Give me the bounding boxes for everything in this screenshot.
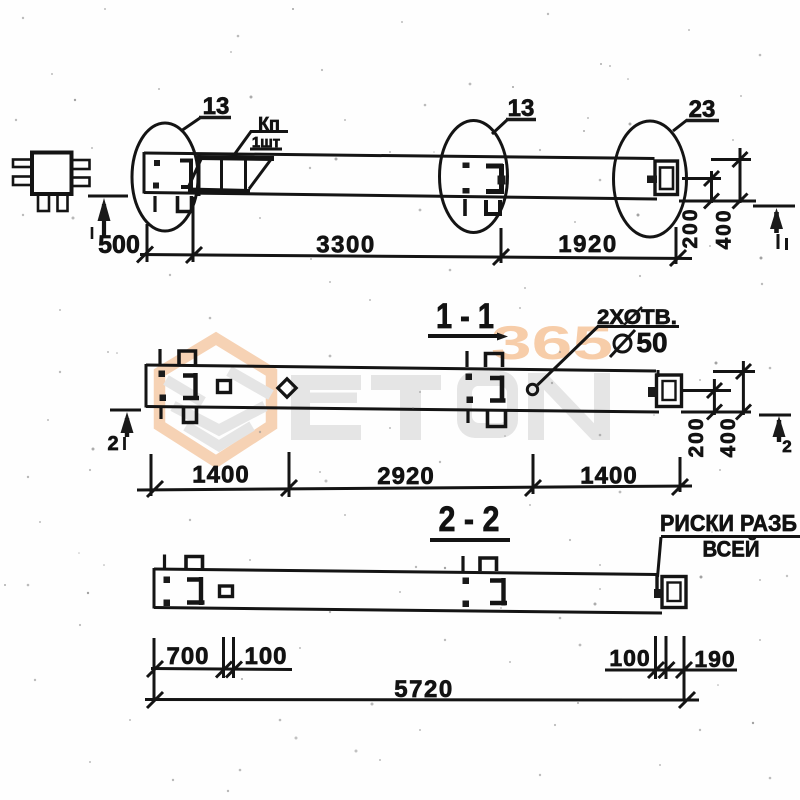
- 1-1 left top stub line: [158, 349, 161, 365]
- section 1-1 beam bottom edge: [146, 407, 659, 413]
- svg-text:500: 500: [98, 231, 140, 259]
- top view dim line 400: [739, 148, 742, 203]
- column cross-section top-left: square: [32, 153, 72, 195]
- 2-2 extension x223.5: [222, 637, 225, 678]
- 1-1 dim line 400: [742, 361, 745, 415]
- 1-1 hole circle: [527, 384, 537, 394]
- 1-1 left bottom stub U: [184, 408, 197, 423]
- riski label leader: [658, 537, 662, 577]
- 2-2 beam top edge: [154, 569, 657, 575]
- riski label underline: [661, 535, 800, 538]
- svg-text:100: 100: [609, 645, 650, 671]
- top view left end: bottom stub line: [153, 196, 156, 212]
- svg-text:1шт: 1шт: [252, 134, 280, 151]
- 1-1 extension x533: [532, 454, 535, 494]
- extension line at x501: [500, 228, 503, 263]
- watermark slab chevron low: [186, 426, 252, 446]
- svg-text:1400: 1400: [192, 462, 249, 489]
- 2-2 left dimension line 700/100: [151, 669, 292, 670]
- 1-1 section cut mark 2 right: stem + arrowhead: [777, 420, 781, 442]
- watermark logo hexagon: [160, 339, 272, 462]
- top view hatch console: vertical 1: [220, 157, 223, 189]
- balloon 13 middle: [440, 121, 508, 233]
- top view hatch console: vertical 2: [244, 157, 247, 189]
- svg-text:РИСКИ РАЗБ: РИСКИ РАЗБ: [660, 510, 797, 536]
- watermark slab chevron mid: [173, 406, 265, 430]
- balloon 13 left leader: [181, 118, 200, 131]
- section cut mark 1 left: bar: [88, 195, 128, 198]
- watermark slab edge NW upper: [166, 380, 203, 402]
- watermark letter T: [371, 375, 441, 440]
- 2-2 right dimension line 100/190: [605, 669, 737, 672]
- 2-2 overall dimension line 5720: [145, 698, 699, 702]
- 1-1 section cut mark 2 right: bar: [759, 414, 791, 417]
- svg-text:5720: 5720: [394, 676, 453, 703]
- 1-1 diamond hole: [278, 379, 296, 397]
- svg-text:3300: 3300: [316, 232, 375, 259]
- 2-2 left dim ticks: [147, 661, 163, 677]
- section 1-1 beam left edge: [145, 364, 148, 408]
- top view right end console outer: [655, 161, 678, 195]
- 2-2 middle top stub line: [461, 556, 464, 571]
- 2-2 beam right step edge: [655, 574, 658, 598]
- 1-1 dim ticks: [147, 481, 163, 497]
- top view: beam left edge: [143, 152, 146, 194]
- 2-2 right console inner: [668, 583, 681, 602]
- top view middle: bottom stub U: [486, 200, 500, 214]
- extension line at x676: [675, 227, 678, 264]
- section cut mark 1 right: stem + arrowhead: [774, 212, 779, 233]
- 1-1 middle top stub U: [486, 354, 503, 368]
- svg-text:ВСЕЙ: ВСЕЙ: [703, 537, 760, 562]
- svg-text:1 - 1: 1 - 1: [436, 297, 494, 336]
- 1-1 right console inner: [663, 381, 676, 400]
- svg-text:2 - 2: 2 - 2: [439, 500, 500, 539]
- section cut mark 1 right: ticks: [777, 234, 780, 249]
- balloon 13 left: [132, 123, 198, 231]
- section 1-1 beam top edge: [146, 365, 656, 371]
- top view right dims: extension at console mid level: [682, 177, 721, 180]
- top view left end: bottom stub U: [178, 196, 192, 212]
- watermark letter E: [291, 375, 361, 440]
- 2-2 left anchor bracket: [187, 577, 205, 605]
- 2-2 middle anchor bracket: [490, 578, 507, 606]
- top view: beam top edge: [144, 153, 655, 159]
- balloon 23 right: [614, 121, 687, 237]
- 1-1 section cut mark 2 left: bar: [110, 409, 141, 412]
- 1-1 left rebar dots: [159, 371, 166, 378]
- section 2-2 title underline: [430, 538, 510, 542]
- top view hatch console: left vertical: [198, 154, 201, 196]
- 2-2 middle top stub U: [480, 558, 497, 571]
- 1-1 middle top stub line: [465, 351, 468, 367]
- svg-text:200: 200: [685, 416, 708, 457]
- 1-1 left small plate: [218, 381, 231, 393]
- svg-text:2ХОТВ.: 2ХОТВ.: [597, 306, 677, 329]
- svg-text:400: 400: [717, 416, 740, 457]
- balloon 13 middle leader: [492, 120, 507, 134]
- 2-2 left small plate: [220, 586, 233, 597]
- 1-1 right dims: mid extension: [682, 389, 731, 392]
- 5720 ticks: [147, 692, 163, 708]
- 2-2 right dim ticks: [648, 662, 664, 678]
- svg-text:2: 2: [782, 437, 791, 456]
- 1-1 hole label underline: [597, 325, 679, 328]
- top view middle: bottom stub line: [463, 199, 467, 216]
- 2-2 left top stub U: [186, 557, 203, 570]
- 1-1 extension x151: [150, 454, 153, 496]
- top view middle: rebar dots: [463, 163, 470, 169]
- watermark slab edge NE upper: [229, 371, 271, 395]
- top view right dims: extension at beam top level: [711, 158, 751, 161]
- top view dim line 200: [710, 171, 713, 203]
- dim ticks top view: [137, 247, 153, 263]
- svg-text:200: 200: [679, 207, 702, 248]
- svg-text:2: 2: [107, 433, 118, 455]
- 1-1 dim line 200: [713, 379, 716, 415]
- 1-1 middle bottom stub U: [488, 411, 506, 427]
- top view right end console inner: [660, 168, 673, 190]
- 2-2 extension x154: [153, 638, 156, 700]
- svg-text:Кп: Кп: [258, 114, 280, 134]
- balloon 23 right leader: [673, 120, 687, 131]
- 1-1 section cut mark 2 left: tick: [123, 437, 126, 450]
- top view dimension line 500/3300/1920: [140, 255, 692, 259]
- top view hatch console: right diagonal: [249, 158, 272, 189]
- svg-text:1400: 1400: [580, 463, 637, 490]
- watermark letter O: [457, 371, 518, 438]
- 2-2 left top stub line: [163, 555, 166, 570]
- top view middle: filled notch: [498, 176, 506, 185]
- top view hatch console: thick bottom bar: [188, 190, 250, 192]
- 1-1 middle bottom stub line: [466, 411, 469, 423]
- 1-1 diameter symbol: [614, 335, 631, 352]
- 2-2 extension x233.5: [232, 637, 235, 678]
- 2-2 extension x684: [683, 636, 686, 699]
- svg-text:400: 400: [713, 208, 736, 249]
- top view right dims: extension at beam bottom level: [679, 200, 756, 203]
- cross-section right rebar prongs: [72, 160, 90, 169]
- 1-1 right console outer: [657, 375, 682, 407]
- 1-1 extension x289: [288, 452, 291, 497]
- section 1-1 beam right edge: [657, 370, 660, 377]
- cross-section bottom rebar prongs: [38, 195, 49, 212]
- label Kp leader: [234, 132, 288, 156]
- 1-1 section cut mark 2 left: stem + arrowhead: [125, 418, 129, 437]
- svg-text:50: 50: [636, 327, 667, 358]
- 2-2 extension x666: [665, 636, 668, 679]
- label 1sht underline: [250, 148, 282, 151]
- svg-text:1920: 1920: [558, 231, 617, 258]
- 1-1 middle rebar dots: [466, 374, 473, 381]
- section cut mark 1 right: bar: [753, 205, 795, 208]
- top view middle: anchor bracket: [486, 164, 503, 194]
- 2-2 middle rebar dots: [463, 578, 470, 585]
- 1-1 middle anchor bracket: [490, 376, 506, 403]
- 1-1 hole leader: [538, 327, 599, 386]
- 1-1 extension x680: [679, 457, 682, 492]
- 1-1 left anchor bracket: [183, 373, 199, 400]
- 2-2 beam left edge: [153, 568, 156, 609]
- 1-1 right dims: bottom extension: [681, 411, 751, 414]
- extension line at x193: [192, 197, 195, 262]
- section cut mark 1 left: stem + arrowhead: [102, 204, 106, 238]
- 2-2 beam bottom edge: [154, 608, 662, 614]
- extension line at x147: [146, 224, 149, 262]
- top view: beam bottom edge: [144, 193, 657, 200]
- top view left end: rebar dots: [154, 160, 160, 166]
- watermark letter N: [528, 373, 610, 440]
- top view right end black plate: [647, 176, 657, 184]
- svg-text:190: 190: [694, 646, 735, 672]
- svg-text:100: 100: [244, 643, 287, 670]
- section cut mark 1 left: tick: [91, 227, 94, 239]
- svg-text:2920: 2920: [377, 463, 434, 490]
- 1-1 bottom dimension line: [137, 486, 692, 490]
- 2-2 left rebar dots: [164, 577, 171, 584]
- svg-text:700: 700: [166, 643, 209, 670]
- 1-1 right black plate: [648, 387, 658, 397]
- 1-1 left bottom stub line: [159, 407, 162, 419]
- 2-2 extension x655.5: [654, 636, 657, 679]
- cross-section left rebar prongs: [13, 160, 32, 168]
- top view hatch console: left diagonal: [188, 157, 202, 188]
- 2-2 right console corner blob: [654, 589, 662, 598]
- 1-1 left top stub U: [179, 351, 196, 365]
- svg-text:365: 365: [491, 316, 613, 369]
- section 1-1 title underline arrow: [428, 334, 500, 338]
- 2-2 right console outer: [662, 577, 686, 608]
- top view hatch console: thick top bar: [197, 158, 274, 159]
- 1-1 right dims: top extension: [713, 370, 755, 373]
- top view left end: anchor bracket: [180, 159, 193, 189]
